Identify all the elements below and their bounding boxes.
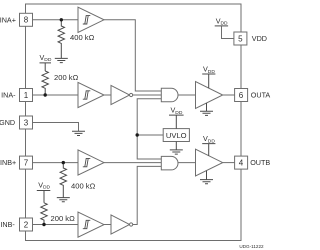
wire VDD symbol to pin5 bbox=[222, 26, 234, 38]
inverter B- bbox=[111, 215, 133, 234]
svg-text:OUTA: OUTA bbox=[251, 91, 271, 100]
schmitt buffer A- bbox=[78, 82, 104, 107]
wire schmitt B- to inverter B- bbox=[104, 224, 111, 226]
junction node UVLO net bbox=[136, 133, 139, 136]
svg-text:VDD: VDD bbox=[38, 180, 50, 190]
VDD symbol buffer A bbox=[202, 74, 215, 88]
ground buffer A bbox=[206, 103, 208, 111]
output buffer B bbox=[196, 149, 223, 176]
svg-text:INB+: INB+ bbox=[0, 158, 16, 167]
schmitt buffer A+ bbox=[78, 7, 104, 32]
wire INA+ row pin8 to schmitt A+ bbox=[32, 19, 78, 21]
pin 8 box bbox=[20, 13, 33, 26]
svg-text:5: 5 bbox=[238, 34, 243, 43]
svg-text:VDD: VDD bbox=[203, 65, 215, 75]
wire buffer A output to pin6 bbox=[223, 94, 235, 96]
wire schmitt A+ output to ANDA top input bbox=[104, 20, 161, 91]
svg-text:VDD: VDD bbox=[252, 34, 267, 43]
svg-text:INB-: INB- bbox=[0, 220, 15, 229]
IC outline border bbox=[26, 4, 242, 241]
pin 2 box bbox=[20, 218, 33, 231]
wire schmitt B+ output to ANDB middle input bbox=[104, 162, 161, 164]
wire INB+ row pin7 to schmitt B+ bbox=[32, 162, 78, 164]
svg-text:GND: GND bbox=[0, 118, 15, 127]
svg-text:VDD: VDD bbox=[203, 134, 215, 144]
svg-text:VDD: VDD bbox=[216, 16, 228, 26]
resistor R 200k INA- bbox=[42, 71, 48, 95]
wire ANDB output to buffer B bbox=[178, 162, 196, 164]
svg-text:VDD: VDD bbox=[40, 53, 52, 63]
svg-text:200 kΩ: 200 kΩ bbox=[51, 214, 76, 223]
VDD symbol bar pin5 bbox=[215, 25, 228, 27]
pin 1 box bbox=[20, 89, 33, 102]
pin 5 box bbox=[234, 32, 247, 45]
and gate A bbox=[161, 88, 178, 102]
VDD symbol buffer B bbox=[202, 144, 215, 156]
ground UVLO bbox=[175, 142, 177, 150]
wire inverter B- bubble up to ANDB bottom input bbox=[133, 166, 162, 224]
svg-text:INA-: INA- bbox=[1, 91, 16, 100]
VDD symbol INB- bias bbox=[37, 191, 51, 203]
svg-text:400 kΩ: 400 kΩ bbox=[71, 182, 96, 191]
wire INB- row pin2 to schmitt B- bbox=[32, 224, 78, 226]
inverter A- bbox=[111, 85, 133, 104]
svg-text:200 kΩ: 200 kΩ bbox=[54, 73, 79, 82]
svg-text:4: 4 bbox=[239, 159, 244, 168]
ground buffer B bbox=[206, 171, 208, 180]
svg-text:7: 7 bbox=[24, 159, 29, 168]
wire ANDA bottom input to UVLO vertical bbox=[137, 99, 161, 159]
pin 6 box bbox=[235, 89, 248, 102]
svg-text:3: 3 bbox=[24, 118, 29, 127]
pin 3 box bbox=[20, 116, 33, 129]
schmitt buffer B+ bbox=[78, 150, 104, 175]
junction node INA+ bias bbox=[60, 18, 63, 21]
svg-text:VDD: VDD bbox=[171, 106, 183, 116]
wire inverter A- bubble to ANDA middle input bbox=[133, 94, 162, 96]
wire schmitt A- to inverter A- bbox=[104, 94, 111, 96]
resistor R 400k INA+ bbox=[58, 20, 64, 59]
svg-text:INA+: INA+ bbox=[0, 15, 16, 24]
svg-text:6: 6 bbox=[239, 91, 244, 100]
wire buffer B output to pin4 bbox=[223, 162, 235, 164]
wire ANDA output to buffer A bbox=[178, 94, 196, 96]
svg-text:UDG-11222: UDG-11222 bbox=[239, 244, 264, 249]
ground below 400k INB+ bbox=[57, 198, 70, 202]
output buffer A bbox=[196, 82, 223, 109]
junction node INB+ bias bbox=[62, 161, 65, 164]
svg-text:400 kΩ: 400 kΩ bbox=[70, 33, 95, 42]
svg-text:8: 8 bbox=[24, 16, 29, 25]
wire GND pin3 to ground bbox=[32, 123, 78, 132]
and gate B bbox=[161, 156, 178, 170]
junction node INB- bias bbox=[42, 223, 45, 226]
VDD symbol INA- bias bbox=[40, 63, 52, 71]
svg-text:2: 2 bbox=[24, 220, 29, 229]
ground below GND pin bbox=[72, 131, 85, 135]
svg-text:1: 1 bbox=[24, 91, 29, 100]
UVLO block bbox=[163, 129, 189, 142]
wire UVLO node to UVLO box bbox=[137, 134, 163, 136]
resistor R 400k INB+ bbox=[60, 163, 66, 198]
resistor R 200k INB- bbox=[41, 203, 47, 225]
pin 7 box bbox=[20, 156, 33, 169]
wire INA- row pin1 to schmitt A- bbox=[32, 94, 78, 96]
schmitt buffer B- bbox=[78, 212, 104, 237]
VDD symbol UVLO bbox=[169, 115, 184, 129]
svg-text:UVLO: UVLO bbox=[166, 131, 187, 140]
junction node INA- bias bbox=[44, 93, 47, 96]
ground below 400k INA+ bbox=[55, 58, 68, 62]
svg-text:OUTB: OUTB bbox=[250, 158, 270, 167]
pin 4 box bbox=[235, 156, 248, 169]
